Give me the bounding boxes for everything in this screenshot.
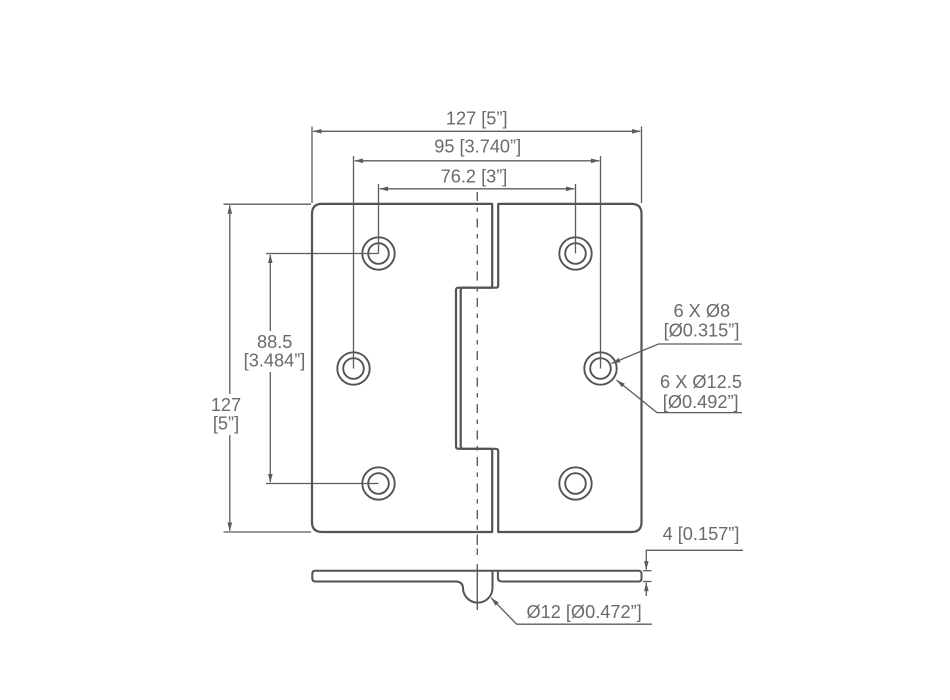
dimension 127 top: extension lines [311,127,313,204]
svg-text:[Ø0.492”]: [Ø0.492”] [663,392,739,412]
label D12: leader [491,598,652,624]
svg-text:6 X Ø12.5: 6 X Ø12.5 [660,372,742,392]
arrow dim76 L [379,187,388,192]
hole bottom-left inner [368,473,389,494]
hole bottom-right inner [565,473,586,494]
hole top-right inner [565,243,586,264]
dimension 4 side: extension ticks [643,570,652,572]
hole top-left inner [368,243,389,264]
arrow dim4 dn [644,582,649,591]
hole bottom-right outer [559,467,591,499]
arrow dim76 R [566,187,575,192]
dimension 95 top: dimension line [355,160,600,162]
arrow dim127top R [632,129,641,134]
arrow dim88 T [268,254,273,263]
side view knuckle bulge [457,571,493,603]
arrow lead125 [617,380,625,387]
arrow dim4 up [644,561,649,570]
dimension 4 side: lower arrow [645,583,647,596]
hole mid-left outer [337,352,369,384]
dimension 76.2 top: extension lines [378,184,380,254]
svg-text:[5”]: [5”] [213,414,239,434]
arrow lead8 [612,358,621,364]
svg-text:[3.484”]: [3.484”] [244,351,306,371]
arrow lead12 [491,598,499,606]
arrow dim127left T [228,205,233,214]
label 6xD12.5: leader [617,380,743,413]
dimension 88.5 left: text mask [240,331,308,372]
svg-text:[Ø0.315”]: [Ø0.315”] [664,321,740,341]
dimension 127 left: extension lines [224,203,312,205]
hole mid-right inner [590,358,611,379]
arrow dim95 R [591,159,600,164]
svg-text:Ø12 [Ø0.472”]: Ø12 [Ø0.472”] [526,602,641,622]
svg-text:6 X Ø8: 6 X Ø8 [673,301,730,321]
hole top-right outer [559,237,591,269]
arrow dim127left B [228,523,233,532]
dimension 127 left: dimension line [229,205,231,530]
svg-text:95 [3.740”]: 95 [3.740”] [434,136,521,156]
dimension 4 side: upper arrow and leader [646,550,743,569]
hole top-left outer [362,237,394,269]
dimension 88.5 left: dimension line [269,255,271,483]
label 6xD8: leader [612,344,743,364]
side view bar outline [312,571,641,582]
hole mid-left inner [343,358,364,379]
arrow dim95 L [354,159,363,164]
svg-text:76.2 [3”]: 76.2 [3”] [441,167,508,187]
arrow dim127top L [313,129,322,134]
dimension 127 top: dimension line [313,130,640,132]
hinge left leaf outline [312,204,492,532]
dimension 76.2 top: dimension line [380,188,575,190]
dimension 127 left: text mask [207,394,247,435]
pin centerline (side view) [476,535,478,546]
dimension 88.5 left: extension lines [266,253,379,255]
dimension 95 top: extension lines [353,156,355,369]
side view knuckle right edge [498,571,503,582]
arrow dim88 B [268,474,273,483]
svg-text:88.5: 88.5 [257,332,292,352]
pin centerline (dashed, main view) [476,192,478,531]
hole mid-right outer [584,352,616,384]
hole bottom-left outer [362,467,394,499]
svg-text:4 [0.157”]: 4 [0.157”] [663,524,740,544]
svg-text:127: 127 [211,395,241,415]
hinge right leaf outline with middle knuckle [456,204,642,532]
svg-text:127 [5”]: 127 [5”] [446,108,508,128]
